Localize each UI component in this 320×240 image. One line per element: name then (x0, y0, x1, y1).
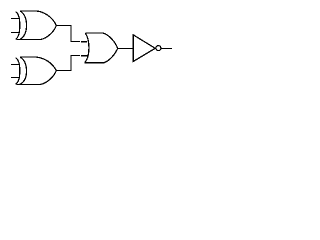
xor body bottom edge U1 (16, 26, 56, 40)
xor back arc U2 (20, 57, 27, 84)
or body bottom edge U3 (84, 49, 117, 63)
wire U1 output to OR input A (56, 26, 87, 42)
wire output (162, 48, 172, 50)
or back arc U3 (85, 33, 89, 62)
xor-gate U1 (top XOR) (11, 11, 56, 40)
xor back arc U1 (20, 11, 27, 39)
wire U2 output to OR input B (56, 56, 89, 71)
xor-gate U2 (bottom XOR) (11, 57, 56, 84)
or body top edge U3 (86, 33, 118, 48)
wire input stub U1 pin 1 (11, 17, 19, 19)
xor body top edge U2 (20, 57, 56, 70)
wire U3 output to inverter (117, 48, 133, 50)
or-gate U3 (84, 33, 117, 63)
xor input arc U2 (16, 58, 20, 84)
wire input stub U1 pin 2 (11, 32, 19, 34)
wire input stub U2 pin 1 (11, 64, 19, 66)
xor body bottom edge U2 (16, 71, 56, 85)
xor input arc U1 (16, 12, 20, 40)
wire input stub U2 pin 2 (11, 77, 19, 79)
xor body top edge U1 (20, 11, 56, 25)
inverter U4 triangle (133, 35, 155, 62)
inverter U4 bubble (156, 46, 161, 51)
